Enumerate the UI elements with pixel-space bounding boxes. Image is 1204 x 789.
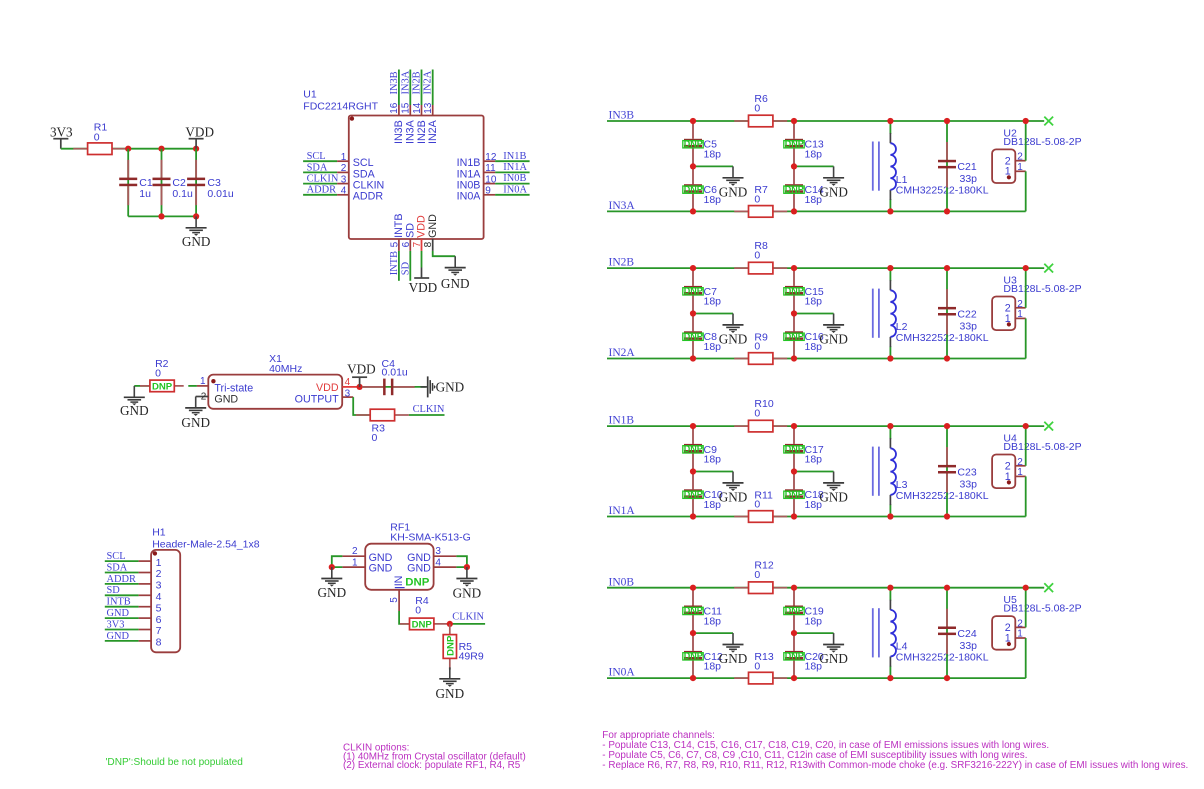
svg-text:0: 0 — [754, 250, 760, 262]
wire cap midpoint to ground (right) — [794, 165, 834, 167]
svg-text:11: 11 — [485, 163, 496, 174]
svg-text:IN: IN — [393, 576, 405, 587]
ground (right cap column) — [819, 314, 848, 347]
svg-text:VDD: VDD — [416, 215, 428, 238]
svg-text:8: 8 — [423, 241, 434, 247]
ground (right of C4, rotated) — [421, 376, 465, 397]
svg-text:33p: 33p — [960, 320, 978, 332]
svg-text:18p: 18p — [704, 296, 722, 308]
capacitor C14 (DNP) — [784, 166, 824, 211]
ground (below R5) — [436, 667, 465, 701]
svg-text:15: 15 — [401, 102, 412, 114]
capacitor C5 (DNP) — [683, 121, 721, 166]
ground (left cap column) — [719, 472, 748, 505]
svg-text:GND: GND — [107, 631, 130, 642]
wire cap midpoint to ground (left) — [693, 471, 733, 473]
wire U4 pin2 to IN1B — [1025, 426, 1027, 466]
capacitor C3 — [187, 160, 234, 205]
connector U3 DB128L-5.08-2P — [992, 275, 1082, 331]
H1 pin 1 SCL — [105, 551, 162, 569]
note EMI guidance — [602, 730, 1188, 771]
junction — [690, 355, 696, 361]
svg-text:GND: GND — [719, 184, 748, 199]
svg-text:SD: SD — [400, 261, 411, 275]
svg-text:33p: 33p — [960, 478, 978, 490]
capacitor C20 (DNP) — [784, 633, 824, 678]
U1 pin 13 IN2A (top) — [423, 70, 439, 145]
ground (left cap column) — [719, 633, 748, 666]
svg-text:5: 5 — [389, 241, 400, 247]
connector U2 DB128L-5.08-2P — [992, 128, 1082, 184]
U1 pin 7 VDD (bottom) + power flag VDD — [409, 215, 438, 295]
junction — [690, 585, 696, 591]
U1 pin 12 IN1B — [457, 151, 530, 169]
H1 pin 6 GND — [105, 608, 162, 626]
svg-text:IN2B: IN2B — [412, 71, 423, 94]
junction — [690, 468, 696, 474]
junction — [690, 208, 696, 214]
svg-text:IN1A: IN1A — [609, 505, 636, 517]
power flag VDD (at X1) — [347, 362, 376, 387]
svg-text:'DNP':Should be not populated: 'DNP':Should be not populated — [106, 757, 243, 768]
no-connect flag — [1044, 583, 1053, 592]
wire U5 pin1 to IN0A — [1025, 638, 1027, 678]
svg-text:GND: GND — [719, 651, 748, 666]
connector RF1 KH-SMA-K513-G body — [365, 522, 471, 590]
svg-text:18p: 18p — [805, 149, 823, 161]
svg-text:DNP: DNP — [785, 184, 804, 194]
wire cap midpoint to ground (left) — [693, 165, 733, 167]
svg-text:1: 1 — [352, 557, 358, 568]
svg-text:GND: GND — [819, 184, 848, 199]
svg-text:C21: C21 — [957, 161, 976, 173]
svg-text:GND: GND — [819, 651, 848, 666]
resistor R5 49R9 (DNP, vertical) — [443, 624, 484, 670]
H1 pin 3 ADDR — [105, 574, 162, 592]
capacitor C17 (DNP) — [784, 426, 824, 471]
wire RF1 left pins to ground — [332, 556, 343, 567]
svg-text:INTB: INTB — [107, 597, 131, 608]
svg-text:1: 1 — [1005, 632, 1011, 644]
svg-text:U1: U1 — [303, 88, 317, 100]
ground (left cap column) — [719, 314, 748, 347]
capacitor C23 33p — [938, 426, 977, 516]
wire C2 column — [161, 149, 163, 217]
svg-text:OUTPUT: OUTPUT — [295, 394, 339, 406]
capacitor C18 (DNP) — [784, 472, 824, 517]
junction — [791, 630, 797, 636]
power flag VDD — [185, 124, 214, 148]
wire U2 pin1 to IN3A — [1025, 171, 1027, 211]
junction — [125, 146, 131, 152]
capacitor C24 33p — [938, 588, 977, 678]
svg-text:IN3B: IN3B — [389, 71, 400, 94]
svg-text:3: 3 — [345, 389, 351, 400]
svg-text:1: 1 — [1017, 629, 1023, 640]
U1 pin 10 IN0B — [457, 173, 530, 191]
U1 pin 3 CLKIN — [303, 174, 384, 192]
junction — [791, 423, 797, 429]
resistor R7 — [734, 184, 787, 217]
U1 pin 8 GND (bottom) + ground — [423, 214, 469, 291]
wire IN3B rail — [607, 120, 1044, 122]
wire U4 pin1 to IN1A — [1025, 476, 1027, 516]
junction — [1023, 585, 1029, 591]
svg-text:KH-SMA-K513-G: KH-SMA-K513-G — [390, 532, 471, 544]
capacitor C13 (DNP) — [784, 121, 824, 166]
wire IN2A rail — [607, 358, 1026, 360]
svg-text:4: 4 — [341, 186, 347, 197]
svg-text:3: 3 — [435, 546, 441, 557]
svg-text:DB128L-5.08-2P: DB128L-5.08-2P — [1003, 136, 1081, 148]
svg-text:IN0A: IN0A — [609, 667, 636, 679]
X1 pin 2 GND + ground — [181, 392, 238, 431]
svg-text:DNP: DNP — [405, 576, 429, 588]
RF1 pin 3 GND — [407, 546, 456, 564]
capacitor C11 (DNP) — [683, 588, 722, 633]
svg-text:DNP: DNP — [684, 286, 703, 296]
wire IN3A rail — [607, 210, 1026, 212]
junction — [690, 265, 696, 271]
svg-text:SDA: SDA — [107, 562, 128, 573]
svg-text:CLKIN: CLKIN — [452, 612, 484, 623]
svg-text:4: 4 — [156, 591, 162, 603]
svg-text:DNP: DNP — [684, 139, 703, 149]
svg-text:Tri-state: Tri-state — [214, 382, 253, 394]
H1 pin 5 INTB — [105, 597, 162, 615]
junction — [690, 423, 696, 429]
common-mode choke L4 CMH322522-180KL — [873, 588, 989, 678]
svg-text:DNP: DNP — [684, 331, 703, 341]
svg-text:0.01u: 0.01u — [382, 367, 408, 379]
svg-text:CMH322522-180KL: CMH322522-180KL — [896, 332, 989, 344]
svg-text:CMH322522-180KL: CMH322522-180KL — [896, 490, 989, 502]
svg-text:IN2A: IN2A — [423, 70, 434, 94]
svg-text:C23: C23 — [957, 466, 976, 478]
svg-text:SCL: SCL — [307, 151, 326, 162]
svg-text:IN2B: IN2B — [416, 120, 428, 144]
RF1 pin 2 GND — [342, 546, 392, 564]
junction — [887, 355, 893, 361]
svg-text:IN0A: IN0A — [503, 184, 527, 195]
junction — [944, 585, 950, 591]
svg-text:IN0B: IN0B — [457, 180, 481, 192]
svg-text:IN1A: IN1A — [503, 162, 527, 173]
U1 pin 6 SD (bottom) — [400, 223, 416, 281]
U1 pin 1 SCL — [303, 151, 374, 169]
wire RF1 pin5 to R4 — [399, 611, 410, 624]
wire X1 pin4 to C4 — [357, 386, 426, 388]
svg-text:INTB: INTB — [389, 251, 400, 275]
svg-text:0: 0 — [754, 341, 760, 353]
svg-text:DNP: DNP — [684, 184, 703, 194]
wire 3V3 to VDD rail — [61, 148, 196, 150]
junction — [447, 621, 453, 627]
svg-text:0: 0 — [94, 132, 100, 144]
resistor R13 — [734, 651, 787, 684]
svg-text:DNP: DNP — [785, 331, 804, 341]
junction — [690, 163, 696, 169]
junction — [791, 163, 797, 169]
svg-text:VDD: VDD — [185, 124, 214, 139]
svg-text:IN1B: IN1B — [503, 151, 526, 162]
svg-text:DNP: DNP — [684, 606, 703, 616]
common-mode choke L1 CMH322522-180KL — [873, 121, 989, 211]
svg-text:VDD: VDD — [316, 382, 339, 394]
ground (RF1 right) — [453, 567, 482, 600]
svg-text:DNP: DNP — [785, 606, 804, 616]
capacitor C21 33p — [938, 121, 977, 211]
resistor R11 — [734, 489, 787, 522]
capacitor C8 (DNP) — [683, 314, 721, 359]
capacitor C22 33p — [938, 268, 977, 358]
junction — [791, 310, 797, 316]
svg-text:ADDR: ADDR — [307, 185, 337, 196]
junction — [158, 213, 164, 219]
svg-text:DNP: DNP — [412, 620, 433, 631]
svg-text:1: 1 — [1005, 166, 1011, 178]
svg-text:C22: C22 — [957, 308, 976, 320]
svg-text:GND: GND — [436, 379, 465, 394]
U1 pin 5 INTB (bottom) — [389, 214, 405, 281]
wire U2 pin2 to IN3B — [1025, 121, 1027, 161]
X1 pin 3 OUTPUT — [295, 389, 354, 406]
svg-text:1: 1 — [1017, 309, 1023, 320]
svg-text:6: 6 — [156, 614, 162, 626]
svg-text:18p: 18p — [805, 454, 823, 466]
junction — [690, 675, 696, 681]
junction — [944, 208, 950, 214]
U1 pin 4 ADDR — [303, 185, 383, 203]
wire R4 to CLKIN — [448, 623, 485, 625]
svg-text:13: 13 — [423, 102, 434, 114]
svg-text:18p: 18p — [805, 615, 823, 627]
svg-text:1u: 1u — [139, 188, 151, 200]
svg-text:IN3A: IN3A — [609, 200, 636, 212]
wire cap midpoint to ground (right) — [794, 313, 834, 315]
resistor R3 — [356, 409, 409, 444]
svg-text:GND: GND — [182, 234, 211, 249]
wire U3 pin1 to IN2A — [1025, 318, 1027, 358]
ground (left cap column) — [719, 166, 748, 199]
common-mode choke L3 CMH322522-180KL — [873, 426, 989, 516]
svg-text:DNP: DNP — [684, 651, 703, 661]
U1 pin 2 SDA — [303, 162, 376, 180]
junction — [944, 118, 950, 124]
U1 pin 11 IN1A — [457, 162, 530, 180]
H1 pin 4 SD — [105, 585, 162, 603]
H1 pin 8 GND — [105, 631, 162, 649]
wire X1 pin3 to R3 — [353, 397, 370, 415]
svg-text:GND: GND — [181, 415, 210, 430]
svg-text:IN2A: IN2A — [609, 347, 636, 359]
svg-text:CLKIN: CLKIN — [307, 174, 339, 185]
junction — [158, 146, 164, 152]
wire decoupling ground rail — [128, 215, 196, 217]
svg-text:5: 5 — [389, 597, 400, 603]
junction — [1023, 423, 1029, 429]
svg-text:0.1u: 0.1u — [172, 188, 193, 200]
svg-text:GND: GND — [120, 403, 149, 418]
capacitor C4 — [362, 358, 415, 395]
svg-text:8: 8 — [156, 637, 162, 649]
resistor R6 — [734, 93, 787, 127]
junction — [791, 265, 797, 271]
svg-text:7: 7 — [412, 241, 423, 247]
junction — [690, 310, 696, 316]
svg-text:IN3A: IN3A — [400, 70, 411, 94]
svg-text:ADDR: ADDR — [107, 574, 137, 585]
svg-text:DNP: DNP — [684, 489, 703, 499]
svg-text:1: 1 — [1005, 313, 1011, 325]
wire U5 pin2 to IN0B — [1025, 588, 1027, 628]
U1 pin 15 IN3A (top) — [400, 70, 416, 145]
svg-text:IN2A: IN2A — [427, 119, 439, 144]
junction — [791, 513, 797, 519]
svg-text:IN3B: IN3B — [393, 120, 405, 144]
junction — [1023, 265, 1029, 271]
junction — [887, 265, 893, 271]
junction — [887, 423, 893, 429]
svg-text:0: 0 — [415, 604, 421, 616]
capacitor C9 (DNP) — [683, 426, 721, 471]
capacitor C2 — [153, 160, 193, 205]
junction — [193, 213, 199, 219]
svg-text:GND: GND — [441, 276, 470, 291]
capacitor C6 (DNP) — [683, 166, 721, 211]
svg-text:Header-Male-2.54_1x8: Header-Male-2.54_1x8 — [152, 538, 260, 550]
svg-text:1: 1 — [156, 557, 162, 569]
svg-text:SCL: SCL — [353, 157, 374, 169]
header H1 Header-Male-2.54_1x8 body — [151, 526, 260, 652]
ground (left of R2) — [120, 386, 150, 418]
svg-text:2: 2 — [201, 392, 207, 403]
svg-text:GND: GND — [407, 563, 431, 575]
svg-text:33p: 33p — [960, 173, 978, 185]
wire RF1 right pins to ground — [456, 556, 467, 567]
capacitor C15 (DNP) — [784, 268, 824, 313]
capacitor C7 (DNP) — [683, 268, 721, 313]
wire cap midpoint to ground (left) — [693, 313, 733, 315]
wire C3 column — [195, 149, 197, 217]
svg-text:- Replace R6, R7, R8, R9, R10,: - Replace R6, R7, R8, R9, R10, R11, R12,… — [602, 760, 1188, 771]
ground (right cap column) — [819, 633, 848, 666]
svg-text:IN0B: IN0B — [503, 173, 526, 184]
junction — [887, 675, 893, 681]
svg-text:(2) External clock: populate R: (2) External clock: populate RF1, R4, R5 — [343, 760, 521, 771]
svg-text:SD: SD — [107, 585, 121, 596]
junction — [357, 384, 363, 390]
junction — [944, 513, 950, 519]
H1 pin 7 3V3 — [105, 619, 162, 637]
resistor R4 (DNP) — [400, 595, 448, 631]
svg-text:10: 10 — [485, 174, 497, 185]
wire R3 to CLKIN — [409, 414, 445, 416]
RF1 pin 5 IN (DNP) — [389, 576, 430, 611]
svg-text:DNP: DNP — [785, 286, 804, 296]
svg-text:1: 1 — [1017, 467, 1023, 478]
wire IN0A rail — [607, 677, 1026, 679]
svg-text:3V3: 3V3 — [50, 124, 73, 139]
junction — [464, 564, 470, 570]
svg-text:9: 9 — [485, 186, 491, 197]
svg-text:0: 0 — [754, 569, 760, 581]
svg-text:0: 0 — [754, 102, 760, 114]
svg-text:40MHz: 40MHz — [269, 363, 302, 375]
svg-text:GND: GND — [719, 331, 748, 346]
junction — [791, 675, 797, 681]
no-connect flag — [1044, 422, 1053, 431]
H1 pin 2 SDA — [105, 562, 162, 580]
svg-text:18p: 18p — [704, 615, 722, 627]
svg-text:1: 1 — [1005, 471, 1011, 483]
capacitor C16 (DNP) — [784, 314, 824, 359]
wire IN1A rail — [607, 516, 1026, 518]
no-connect flag — [1044, 264, 1053, 273]
junction — [690, 513, 696, 519]
svg-text:IN3A: IN3A — [405, 119, 417, 144]
svg-text:3V3: 3V3 — [107, 619, 125, 630]
svg-text:0.01u: 0.01u — [207, 188, 233, 200]
svg-text:IN0A: IN0A — [457, 191, 482, 203]
svg-text:0: 0 — [754, 499, 760, 511]
junction — [791, 585, 797, 591]
svg-text:4: 4 — [435, 557, 441, 568]
svg-text:0: 0 — [372, 432, 378, 444]
svg-text:DNP: DNP — [785, 489, 804, 499]
svg-text:SDA: SDA — [353, 168, 376, 180]
svg-text:DNP: DNP — [785, 651, 804, 661]
svg-text:3: 3 — [156, 580, 162, 592]
resistor R12 — [734, 560, 787, 594]
resistor R9 — [734, 331, 787, 364]
crystal oscillator X1 40MHz body — [208, 353, 342, 409]
capacitor C1 — [119, 160, 153, 205]
wire cap midpoint to ground (left) — [693, 632, 733, 634]
op-amp U1 FDC2214RGHT body — [303, 88, 483, 239]
junction — [791, 118, 797, 124]
no-connect flag — [1044, 117, 1053, 126]
svg-text:5: 5 — [156, 602, 162, 614]
U1 pin 16 IN3B (top) — [389, 70, 405, 145]
svg-text:IN2B: IN2B — [609, 257, 635, 269]
junction — [887, 208, 893, 214]
wire R2 to X1 pin1 — [188, 385, 197, 387]
svg-text:DNP: DNP — [445, 635, 456, 656]
U1 pin 9 IN0A — [457, 184, 530, 202]
svg-text:18p: 18p — [805, 296, 823, 308]
svg-text:1: 1 — [1017, 162, 1023, 173]
svg-text:GND: GND — [427, 214, 439, 238]
svg-text:INTB: INTB — [393, 214, 405, 238]
X1 pin 4 VDD — [316, 377, 357, 394]
svg-text:0: 0 — [754, 408, 760, 420]
junction — [944, 265, 950, 271]
svg-text:DNP: DNP — [152, 382, 173, 393]
X1 pin 1 Tri-state — [197, 376, 253, 394]
ground (right cap column) — [819, 472, 848, 505]
junction — [887, 585, 893, 591]
junction — [329, 564, 335, 570]
junction — [791, 208, 797, 214]
svg-text:14: 14 — [412, 102, 423, 114]
resistor R10 — [734, 398, 787, 432]
wire IN0B rail — [607, 587, 1044, 589]
resistor R8 — [734, 240, 787, 274]
svg-text:33p: 33p — [960, 640, 978, 652]
svg-text:IN0B: IN0B — [609, 576, 635, 588]
svg-text:16: 16 — [389, 102, 400, 114]
